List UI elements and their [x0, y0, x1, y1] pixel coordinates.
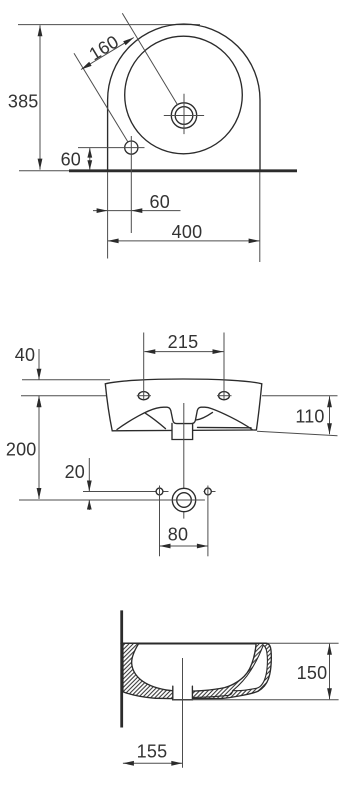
secondary wedge right [196, 412, 213, 420]
drain axis front view [183, 403, 185, 519]
extension line A top left [22, 379, 110, 381]
drain stub side outline [173, 686, 193, 700]
svg-text:20: 20 [65, 462, 85, 482]
drain stub side white [173, 686, 193, 700]
bowl cavity white [132, 644, 256, 692]
dimension 150 line [329, 644, 331, 700]
dimension 80 line [160, 545, 208, 547]
extension line right (400) [259, 172, 261, 262]
fixing hole left [138, 392, 149, 400]
extension line bottom right (110) [257, 431, 338, 436]
arrow 20 down [87, 481, 92, 492]
faucet hole circle [125, 141, 138, 154]
basin section body hatched [123, 643, 271, 700]
secondary contour right [198, 426, 252, 428]
wire: top extension line [18, 24, 200, 26]
arrow 110 top [327, 396, 332, 407]
wall line thick [69, 169, 297, 172]
dimension 215 line [144, 351, 223, 353]
overflow pocket white [233, 645, 267, 690]
svg-text:215: 215 [168, 332, 199, 352]
svg-text:110: 110 [295, 407, 324, 427]
dimension 160 line [81, 38, 134, 70]
shell inner bottom contour [193, 690, 233, 697]
drain crosshair horizontal [164, 115, 204, 117]
dimension 20 lower line [88, 500, 90, 510]
dimension 110 line [329, 396, 331, 434]
dimension 400 line [108, 240, 260, 242]
washbasin body front view [105, 379, 261, 431]
arrow 80 left [160, 544, 171, 549]
mounting hole right circle [205, 488, 212, 495]
faucet crosshair horizontal / 60 extension [78, 147, 145, 149]
svg-text:60: 60 [150, 192, 170, 212]
faucet crosshair vertical / 60 extension down [130, 136, 132, 233]
drain stub front view [172, 424, 193, 440]
dimension 385 line [39, 25, 41, 169]
drain hole inner circle [175, 107, 193, 125]
arrow 200 top [37, 396, 42, 407]
svg-text:200: 200 [6, 440, 37, 460]
arrow 150 top [327, 644, 332, 655]
arrow 200 bottom [37, 488, 42, 499]
arrow 60v bottom [87, 160, 92, 170]
fixing hole left tick [137, 395, 151, 397]
fixing hole right [219, 392, 230, 400]
dimension 200 line [38, 396, 40, 499]
arrow 155 right [171, 761, 182, 766]
svg-text:80: 80 [168, 525, 188, 545]
fixing hole left vertical [143, 333, 145, 400]
drain stub outline [172, 423, 193, 439]
arrow 160 upper [123, 38, 134, 46]
line B right segment [262, 395, 338, 397]
diagonal construction line through drain [122, 13, 177, 104]
mounting hole left circle [156, 488, 163, 495]
bowl profile crown [117, 407, 252, 429]
svg-text:160: 160 [86, 31, 123, 64]
arrow 215 left [144, 349, 155, 354]
drain bottom crosshair [165, 499, 205, 501]
drain bottom inner circle [177, 493, 192, 508]
arrow 150 bottom [327, 688, 332, 699]
arrow 155 left [123, 761, 134, 766]
arrow 385 top [38, 25, 43, 36]
extension line left (400) [107, 172, 109, 259]
dimension 60 vertical line [89, 148, 91, 170]
arrow 400 right [249, 239, 260, 244]
svg-text:40: 40 [15, 345, 35, 365]
mounting hole left vertical [159, 486, 161, 557]
secondary contour left [146, 413, 166, 428]
diagonal construction line through faucet [74, 53, 128, 142]
line B left segment [21, 395, 107, 397]
top edge object line [121, 642, 266, 644]
arrow 60v top [87, 148, 92, 158]
arrow 60h right [131, 208, 142, 213]
drain hole outer circle [171, 103, 196, 128]
svg-text:155: 155 [137, 742, 168, 762]
arrow 400 left [108, 239, 119, 244]
bottom extension line side [173, 699, 339, 701]
drain bottom outer circle [172, 488, 195, 511]
arrow 40 up [37, 396, 42, 407]
svg-text:60: 60 [61, 150, 81, 170]
arrow 160 lower [81, 62, 92, 70]
arrow 110 bottom [327, 423, 332, 434]
arrow 20 up [87, 500, 92, 510]
arrow 60h left [97, 208, 108, 213]
mounting hole right vertical [207, 486, 209, 557]
dimension 155 line [123, 762, 182, 764]
top extension line side [121, 642, 339, 644]
basin inner circle [125, 36, 243, 154]
arrow 385 bottom [38, 159, 43, 170]
mounting holes line upper right segment [204, 491, 216, 493]
wall line thin left segment [19, 170, 69, 172]
svg-text:400: 400 [172, 222, 203, 242]
bottom reference line [19, 499, 205, 501]
svg-text:385: 385 [8, 92, 39, 112]
mounting holes line upper [83, 491, 169, 493]
arrow 40 down [37, 369, 42, 380]
arrow 80 right [197, 544, 208, 549]
dimension 40 lower line with arrow [38, 396, 40, 411]
basin outline (top view) [108, 24, 260, 171]
drain crosshair vertical [183, 94, 185, 134]
dimension 60 horizontal line [93, 210, 181, 212]
dimension 40 upper line with arrow [38, 349, 40, 380]
fixing hole right vertical [223, 333, 225, 400]
arrow 215 right [213, 349, 224, 354]
wall line side view [120, 610, 123, 727]
svg-text:150: 150 [297, 663, 328, 683]
dimension 20 upper line [88, 458, 90, 492]
drain axis side view [182, 658, 184, 768]
fixing hole right tick [217, 395, 232, 397]
